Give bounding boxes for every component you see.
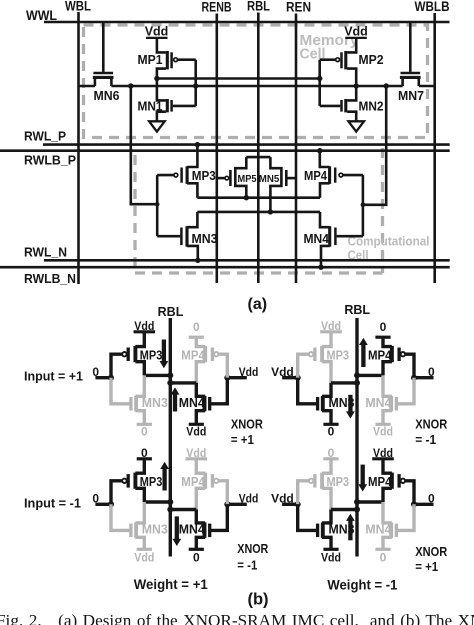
wire pass gate top rail to RBL [246,156,270,159]
node left pull junction dot [354,380,360,386]
wire MP3 drain to pull line [135,488,144,502]
node left pull junction dot [167,499,173,505]
wire input to MN3 gate [111,504,131,530]
terminal Vdd (P left, gray) [320,319,342,333]
label (a) [248,296,268,313]
svg-text:WWL: WWL [26,8,57,23]
label RWL_N [24,246,67,260]
node MN4 on RWLB_N dot [318,265,323,270]
pmos MP4 (inactive) [181,473,218,489]
terminal Vdd (N left) [321,549,341,564]
svg-text:= +1: = +1 [415,559,438,574]
svg-text:(a): (a) [248,296,268,313]
wire right pull line to RBL [170,508,196,511]
wire MP1 gate lead [178,58,196,61]
svg-text:RBL: RBL [344,303,370,317]
terminal 0 (N right) [375,549,390,564]
node QB junction dot (comp tap right) [384,83,389,88]
svg-text:MP5: MP5 [238,174,258,185]
wire right node to MN4 gate [210,504,228,530]
svg-text:Fig. 2. (a) Design of the XN: Fig. 2. (a) Design of the XNOR-SRAM IMC … [0,611,474,625]
label RWLB_N [24,272,76,286]
current arrow (N branch) [171,387,180,411]
nmos MN4 (inactive) [365,396,396,411]
node right pull junction dot [167,507,173,513]
wire RENB to MP5 gate [217,177,225,180]
svg-text:XNOR: XNOR [237,541,269,556]
nmos MN3 (active) [318,396,355,411]
wire MP4 drain to pull line [383,362,392,376]
wire RWLB_N horizontal line [0,266,450,269]
wire left P source [135,332,144,347]
wire RWL_P horizontal line [43,143,450,146]
wire inverter2 output column [347,69,356,101]
terminal 0 (N left) [323,424,338,438]
computational cell dashed boundary (left edge) [133,155,136,273]
svg-text:MN3: MN3 [142,522,168,536]
wire MN4 drain leg [320,212,330,227]
node QB junction dot (inverter2 drain) [354,83,359,88]
wire MP4 drain leg [320,183,330,197]
current arrow (P branch) [160,462,169,491]
wire node QB line (left of MN6) [79,85,96,88]
wire MP3 source leg to RWL_P [187,145,197,167]
nmos MN5 gate [285,170,288,186]
nmos MN4 (active) [179,396,210,411]
node MP3 on RWL_P dot [195,142,200,147]
svg-text:Weight = -1: Weight = -1 [327,578,397,593]
svg-text:XNOR: XNOR [231,417,264,432]
wire RWLB_P horizontal line [0,149,450,152]
wire QB tap down-right to comp cell [363,86,386,205]
terminal Vdd (N right) [373,424,393,438]
terminal 0 (P right) [375,320,390,337]
label Input = -1 [24,496,81,511]
wire Vdd to MP2 source [347,38,356,52]
node right gate junction dot [411,375,417,381]
terminal 0 (N left) [137,424,152,438]
svg-text:RBL: RBL [247,0,270,14]
svg-text:RWL_N: RWL_N [24,246,67,260]
wire right node to MP4 gate [405,354,414,378]
wire left pull line to RBL [331,508,357,511]
current arrow (N branch) [346,514,355,541]
svg-text:0: 0 [380,320,387,334]
wire right N source leg [196,411,205,425]
wire MP3 gate lead [157,174,174,177]
wire right N source leg [196,537,205,549]
svg-text:= -1: = -1 [237,558,257,573]
node input junction dot [295,375,301,381]
wire right gate node terminal [227,376,247,379]
svg-text:Vdd: Vdd [321,550,341,564]
svg-text:Vdd: Vdd [344,25,368,39]
pmos MP5 gate [225,170,230,186]
terminal Vdd (N left) [134,549,154,564]
terminal 0 (P left, gray) [323,446,338,460]
label RWLB_P [24,154,76,168]
label input level 0 [92,492,99,506]
svg-text:Input = -1: Input = -1 [24,496,81,511]
svg-text:Vdd: Vdd [145,25,169,39]
label REN [286,0,311,15]
pmos MP3 (active) [122,473,162,489]
nmos MN5 body [259,157,282,212]
svg-text:MN7: MN7 [398,89,424,103]
svg-text:MN4: MN4 [304,232,330,246]
node input junction dot [108,501,114,507]
wire right node to MP4 gate [218,354,227,378]
wire left N source leg [135,537,144,549]
node right gate junction dot [224,501,230,507]
wire input to MP3 gate [298,354,309,378]
terminal 0 (P left, black) [137,446,152,460]
wire right node to MN4 gate [396,504,414,530]
nmos MN4 (comp) [304,226,336,247]
wire MP4 gate lead [343,174,363,177]
label RBL (array) [247,0,270,14]
current arrow (P branch) [358,465,367,492]
svg-text:MP4: MP4 [304,169,327,183]
label (b) [247,591,268,609]
wire RENB vertical line [216,14,219,284]
label input level Vdd [271,492,294,506]
node comp left gate rail dot [155,202,160,207]
power Vdd (right inverter) [344,25,368,39]
svg-text:MN6: MN6 [94,89,120,103]
svg-text:MN4: MN4 [365,522,391,536]
terminal 0 (P right) [189,320,204,337]
current arrow (N branch) [172,516,181,546]
terminal Vdd (P right) [186,446,208,460]
pmos MP4 (active) [368,473,405,489]
current arrow (N branch) [346,395,355,419]
wire inverter1 gate rail [194,60,197,106]
wire node QB line (right of MN7) [419,85,435,88]
wire left pull line to RBL [331,381,357,384]
wire MN2 source to ground [347,112,356,122]
svg-text:XNOR: XNOR [415,417,448,432]
wire right P source [196,337,205,346]
wire left N drain leg [322,383,331,396]
svg-text:0: 0 [141,425,148,439]
wire input terminal [95,503,111,506]
svg-text:0: 0 [328,425,335,439]
wire input terminal [282,376,298,379]
wire inverter2 gate rail [318,60,321,106]
svg-text:Vdd: Vdd [373,446,393,460]
wire RWL_N horizontal line [44,259,450,262]
wire inverter1 output column [157,69,166,101]
label XNOR = +1 (top left) [231,417,264,447]
label gate level Vdd (right) [239,365,258,379]
svg-text:RWL_P: RWL_P [24,130,66,144]
svg-text:Weight = +1: Weight = +1 [134,577,208,592]
wire WBL vertical line [77,12,80,284]
wire MN1 gate lead [173,105,196,108]
wire Vdd to MP1 source [157,38,166,52]
pmos MP4 (active) [368,346,405,362]
wire MP4 drain to pull line [383,488,392,502]
svg-text:MN3: MN3 [142,396,168,410]
label XNOR = +1 (bottom right) [415,544,448,574]
pmos MP1 [138,51,178,69]
wire left pull line to RBL [144,374,170,377]
wire right N drain leg [196,383,205,396]
wire right gate node terminal [414,503,434,506]
label input level 0 [92,365,99,379]
svg-text:XNOR: XNOR [415,544,448,559]
wire RBL vertical (right column) [355,318,358,557]
ground (right inverter) [348,121,364,131]
wire REN to MN5 gate [288,177,297,180]
svg-text:Vdd: Vdd [186,425,206,439]
node Q junction dot [154,76,159,81]
node right gate junction dot [224,375,230,381]
node right gate junction dot [411,501,417,507]
pmos MP4 (inactive) [181,346,218,362]
wire P pull node line [197,196,320,199]
svg-text:0: 0 [380,550,387,564]
terminal Vdd (P left, black) [134,319,156,333]
pmos MP3 (inactive) [309,346,349,362]
computational cell dashed boundary (right edge) [381,148,384,273]
nmos MN3 (comp) [181,226,217,247]
svg-text:MP2: MP2 [359,53,384,67]
wire right pull line to RBL [357,374,383,377]
svg-text:Vdd: Vdd [321,319,341,333]
svg-text:Vdd: Vdd [373,425,393,439]
wire MP4 source leg to RWLB_P [320,151,330,167]
wire input to MN3 gate [111,378,131,404]
svg-text:Vdd: Vdd [186,446,206,460]
wire left P source [135,459,144,473]
wire right P source [383,459,392,473]
svg-text:RBL: RBL [158,305,184,319]
pmos MP3 (comp) [174,166,216,184]
svg-text:RENB: RENB [202,0,232,15]
svg-text:Vdd: Vdd [134,550,154,564]
svg-text:MN4: MN4 [179,522,205,536]
wire MP3 drain to pull line [135,362,144,376]
node MP5 on P pull line dot [244,195,249,200]
wire right gate node terminal [414,376,434,379]
label gate level Vdd (right) [239,492,258,506]
wire right N drain leg [196,510,205,523]
pmos MP3 (active) [122,346,162,362]
wire input to MP3 gate [111,354,122,378]
wire input to MP3 gate [111,481,122,505]
wire REN vertical line [295,14,298,284]
label RWL_P [24,130,66,144]
wire left N drain leg [135,502,144,523]
node right pull junction dot [167,380,173,386]
svg-text:MN4: MN4 [179,396,205,410]
node input junction dot [295,501,301,507]
svg-text:0: 0 [193,550,200,564]
wire left pull line to RBL [144,500,170,503]
node inverter2 input junction dot [317,76,322,81]
wire comp right gate rail [362,175,365,236]
wire MN4 gate lead [337,235,363,238]
nmos MN7 [398,73,424,103]
label RENB [202,0,232,15]
pmos MP4 (comp) [304,166,343,184]
wire right pull line to RBL [357,500,383,503]
svg-text:WBLB: WBLB [415,0,450,14]
wire WWL to MN6 gate [102,22,105,72]
wire node QB line (main) [111,85,402,88]
node input junction dot [108,375,114,381]
wire QB tap down-left to comp cell [131,86,157,204]
wire left N source leg [135,411,144,425]
wire MN3 gate lead [157,235,180,238]
wire WWL horizontal line [44,21,450,24]
wire MN4 source leg to RWLB_N [321,246,330,267]
svg-text:= +1: = +1 [231,432,254,447]
terminal 0 (N right) [189,549,204,564]
wire right N drain leg [383,502,392,523]
nmos MN4 (inactive) [365,522,396,537]
wire MN1 source to ground [157,112,166,122]
wire input terminal [95,376,111,379]
wire right N source leg [383,537,392,549]
svg-text:Input = +1: Input = +1 [24,369,83,384]
wire left P source [322,459,331,473]
node inverter1 input junction dot [193,83,198,88]
svg-text:MN2: MN2 [359,99,384,113]
svg-text:MN5: MN5 [259,174,280,185]
power Vdd (left inverter) [145,25,169,39]
node QB junction dot (comp tap left) [128,83,133,88]
nmos MN6 [93,73,120,103]
node MN3 on RWL_N dot [195,258,200,263]
node comp right gate rail dot [361,203,366,208]
svg-text:MP1: MP1 [138,53,163,67]
wire left N drain leg [322,510,331,523]
wire right P source [196,459,205,473]
wire right P source [383,337,392,346]
wire N pull node line [197,211,320,214]
wire MP3 drain to pull line [322,362,331,383]
ground (left inverter) [149,121,165,131]
label WBLB [415,0,450,14]
wire left P source [322,332,331,347]
label XNOR = -1 (top right) [415,417,448,447]
pmos MP2 [336,51,384,69]
wire input terminal [282,503,298,506]
label RBL (right column) [344,303,370,317]
label Computational Cell [348,234,430,263]
nmos MN3 (inactive) [131,522,168,537]
wire right pull line to RBL [170,381,196,384]
svg-text:Vdd: Vdd [134,319,154,333]
wire RBL vertical line (array) [257,13,260,284]
svg-text:REN: REN [286,0,311,15]
wire MN2 gate lead [320,105,341,108]
wire input to MP3 gate [298,481,309,505]
node left pull junction dot [167,372,173,378]
svg-text:0: 0 [141,446,148,460]
node MN5 on N pull line dot [268,209,273,214]
label gate level 0 (right) [428,365,435,379]
wire right node to MN4 gate [396,378,414,404]
wire comp left gate rail [156,175,159,236]
label Weight = +1 [134,577,208,592]
wire left N source leg [322,537,331,549]
label Memory Cell [300,32,360,62]
label Input = +1 [24,369,83,384]
nmos MN1 [138,99,172,113]
wire MP3 drain to pull line [322,488,331,509]
wire MP3 drain leg [187,183,197,197]
label Weight = -1 [327,578,397,593]
wire MP4 drain to pull line [196,362,205,383]
svg-text:(b): (b) [247,591,268,609]
wire MN3 source leg to RWL_N [187,246,198,260]
caption Fig. 2 [0,611,474,625]
pmos MP3 (inactive) [309,473,349,489]
label WBL [65,0,91,14]
svg-text:RWLB_P: RWLB_P [24,154,76,168]
current arrow (P branch) [359,338,368,367]
wire right node to MN4 gate [210,378,228,404]
svg-text:WBL: WBL [65,0,91,14]
svg-text:0: 0 [328,446,335,460]
memory cell dashed boundary box [84,25,428,138]
label gate level 0 (right) [428,492,435,506]
wire input to MN3 gate [298,504,318,530]
svg-text:= -1: = -1 [415,432,436,447]
wire right gate node terminal [227,503,247,506]
node right pull junction dot [354,499,360,505]
label WWL [26,8,57,23]
label input level Vdd [271,365,294,379]
wire MP2 gate lead [320,58,336,61]
wire right N drain leg [383,375,392,396]
wire right node to MP4 gate [218,481,227,505]
svg-text:RWLB_N: RWLB_N [24,272,76,286]
terminal Vdd (N right) [186,424,206,438]
wire WWL to MN7 gate [409,22,412,72]
nmos MN3 (inactive) [131,396,168,411]
svg-text:MP3: MP3 [192,169,216,183]
svg-text:0: 0 [193,320,200,334]
wire WBLB vertical line [433,13,436,283]
wire RBL vertical (left column) [169,318,172,557]
computational cell dashed boundary (bottom edge) [135,271,383,274]
wire left N source leg [322,411,331,425]
wire right node to MP4 gate [405,481,414,505]
label XNOR = -1 (bottom left) [237,541,269,573]
svg-text:MN3: MN3 [192,232,218,246]
wire MP4 drain to pull line [196,488,205,509]
nmos MN3 (active) [318,522,355,537]
node MP4 on RWLB_P dot [317,148,322,153]
node right pull junction dot [354,372,360,378]
svg-text:MN4: MN4 [365,396,391,410]
current arrow (P branch) [160,340,169,369]
wire right N source leg [383,411,392,425]
wire input to MN3 gate [298,378,318,404]
wire MN3 drain leg [187,212,197,227]
label RBL (left column) [158,305,184,319]
wire left N drain leg [135,375,144,396]
nmos MN4 (active) [179,522,210,537]
terminal Vdd (P right) [372,446,394,460]
wire node Q line [157,77,320,80]
nmos MN2 [342,99,384,113]
